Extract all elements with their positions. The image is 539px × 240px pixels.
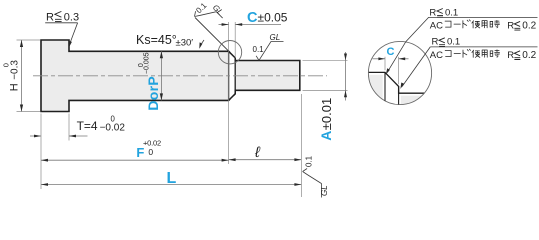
H dimension label (rotated) [2, 60, 21, 92]
chamfer extension line for rotated surface mark [195, 18, 229, 52]
step face circle edge [234, 58, 236, 94]
H dimension extension line bottom [17, 111, 41, 113]
svg-text:0.2: 0.2 [522, 50, 536, 61]
svg-text:AC: AC [430, 20, 443, 31]
svg-text:GL: GL [320, 185, 329, 196]
C dimension line left with arrow [219, 24, 229, 26]
svg-text:±0.05: ±0.05 [258, 10, 288, 24]
A dimension arrow pointing up [344, 90, 347, 97]
svg-text:Ks=45°: Ks=45° [136, 33, 177, 47]
svg-text:0.1: 0.1 [253, 45, 265, 54]
detail C dimension line left [373, 58, 386, 60]
H dimension line [21, 40, 23, 112]
svg-text:±30′: ±30′ [176, 38, 194, 49]
svg-text:GL: GL [270, 33, 281, 42]
surface finish symbol on tip (0.1 GL) [256, 42, 283, 61]
svg-text:T=4: T=4 [77, 119, 98, 133]
pin body (head, shank, chamfered step, tip) [41, 40, 300, 112]
detail C dimension line right [399, 58, 409, 60]
detail step face circle edge [398, 86, 400, 105]
DorP arrow down [160, 93, 163, 100]
svg-text:R: R [46, 12, 54, 24]
svg-text:H: H [9, 83, 21, 91]
svg-text:C: C [247, 10, 258, 26]
l dimension arrow left [229, 158, 236, 161]
DorP label (rotated) [138, 52, 161, 110]
A dimension bottom extension line [303, 89, 348, 91]
svg-text:R: R [507, 50, 514, 61]
T dimension arrow pointing left [69, 135, 76, 138]
svg-text:C: C [387, 46, 395, 58]
callout 1 leader (bent) [387, 17, 428, 72]
surface finish symbol at tip end face (rotated 90) [303, 169, 322, 198]
F/C extension line at step [228, 22, 230, 164]
detail circle [368, 41, 431, 104]
svg-text:−0.3: −0.3 [10, 60, 21, 80]
detail C arrow pointing right [378, 57, 385, 60]
detail C dimension right extension [398, 57, 400, 85]
T dimension line left part [30, 135, 41, 137]
svg-text:A: A [318, 131, 334, 141]
T dimension arrow pointing right [34, 135, 41, 138]
detail circle on main view [218, 41, 241, 64]
T dimension extension line right [68, 114, 70, 141]
callout 1 arrowhead [386, 68, 390, 74]
DorP arrow up [160, 51, 163, 58]
svg-text:−0.02: −0.02 [100, 123, 126, 134]
F/T left extension line [40, 114, 42, 190]
A dimension label (rotated) [318, 98, 334, 141]
callout 2 underline [430, 46, 537, 48]
detail C arrow pointing left [399, 57, 406, 60]
svg-text:0: 0 [148, 147, 153, 157]
H dimension arrow up [20, 40, 23, 47]
svg-text:AC: AC [430, 50, 443, 61]
svg-text:0.3: 0.3 [64, 12, 79, 24]
callout 2 leader [402, 47, 430, 87]
C dimension arrow pointing right [222, 23, 229, 26]
callout 1 underline [428, 16, 537, 18]
R<=0.3 leader arrowhead [69, 41, 72, 47]
A dimension line [345, 52, 347, 101]
svg-text:0: 0 [2, 63, 11, 67]
svg-text:R: R [429, 7, 436, 18]
C dimension arrow pointing left [235, 23, 242, 26]
l (ell) dimension line [229, 159, 302, 161]
F dimension line [41, 159, 229, 161]
A dimension top extension line [303, 59, 348, 61]
detail view profile: shank top edge, chamfer, step face, tip edge [367, 72, 426, 93]
chamfer start circle edge [228, 51, 230, 100]
svg-text:0.1: 0.1 [445, 7, 458, 18]
C dimension line right with arrow [235, 24, 281, 26]
svg-text:R: R [432, 37, 439, 48]
lower chamfer edge [229, 94, 236, 101]
step face band (annular face, shown white) [229, 52, 234, 100]
R<=0.3 leader [70, 23, 77, 43]
svg-text:0: 0 [111, 115, 116, 124]
Ks leader line [202, 40, 204, 43]
C dimension extension line (right, at chamfer end) [234, 22, 236, 58]
Ks leader arrowhead [199, 42, 202, 48]
H dimension arrow down [20, 105, 23, 112]
svg-text:L: L [167, 170, 177, 187]
detail chamfer start circle edge [384, 72, 386, 105]
rotated surface finish symbol on chamfer (0.1 GL) [192, 1, 222, 31]
L dimension line [41, 184, 301, 186]
detail C dimension left extension [384, 57, 386, 71]
F dimension arrow right [222, 159, 229, 162]
H dimension extension line top [17, 39, 41, 41]
L dimension arrow left [41, 183, 48, 186]
svg-text:R: R [507, 20, 514, 31]
l dimension arrow right [294, 158, 301, 161]
svg-text:0.2: 0.2 [522, 20, 536, 31]
L dimension arrow right [294, 183, 301, 186]
svg-text:±0.01: ±0.01 [319, 98, 334, 130]
callout 2 katakana/kanji drawn [445, 49, 499, 57]
callout 1 katakana/kanji (ko-)do shiyouji drawn [445, 20, 499, 28]
svg-text:0: 0 [138, 63, 145, 67]
svg-text:0.1: 0.1 [447, 37, 460, 48]
svg-text:DorP: DorP [145, 76, 161, 111]
tip end extension line [300, 94, 302, 197]
svg-text:0.1: 0.1 [305, 155, 314, 167]
A dimension arrow pointing down [344, 54, 347, 61]
F dimension arrow left [41, 159, 48, 162]
centerline [33, 75, 327, 77]
callout 2 arrowhead [400, 83, 404, 89]
R<=0.3 underline [45, 22, 77, 24]
DorP dimension line [160, 51, 162, 100]
T dimension line right part [69, 135, 88, 137]
upper chamfer edge [229, 51, 236, 58]
